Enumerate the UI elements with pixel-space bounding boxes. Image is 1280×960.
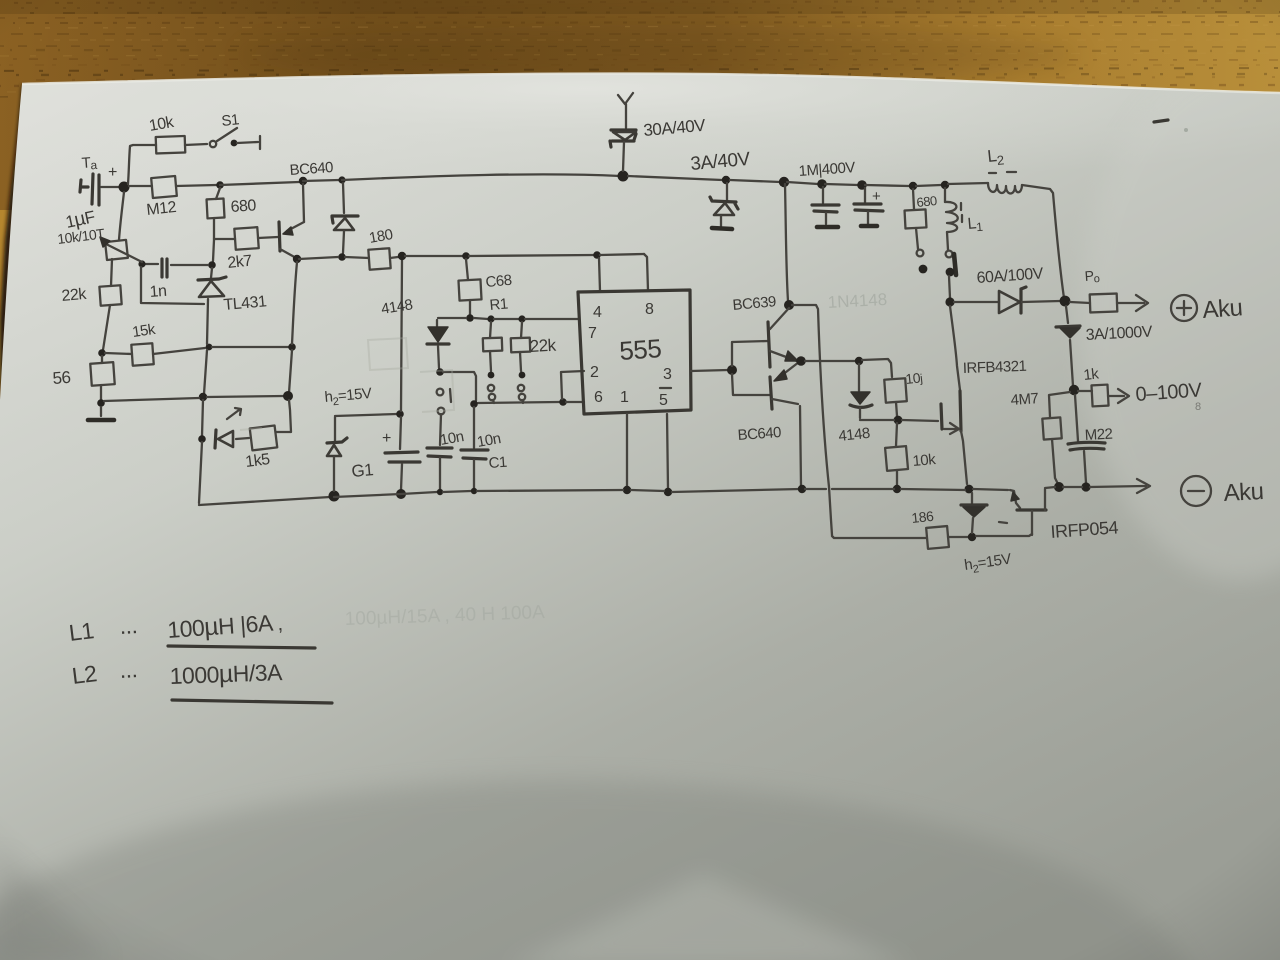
svg-text:22k: 22k xyxy=(61,286,88,305)
wire AI to AJ xyxy=(494,318,519,320)
svg-text:IRFB4321: IRFB4321 xyxy=(963,358,1027,377)
svg-text:4M7: 4M7 xyxy=(1010,390,1039,409)
wire connector to node M xyxy=(949,276,950,298)
node AE G1 zener xyxy=(329,491,340,502)
node O xyxy=(1069,385,1079,395)
svg-text:+: + xyxy=(108,164,117,181)
wire 186 to node AT xyxy=(948,536,968,538)
node Q xyxy=(1054,482,1064,492)
svg-text:4148: 4148 xyxy=(838,425,871,445)
wire AJ to 555 pin7 xyxy=(525,318,578,320)
plus terminal Aku xyxy=(1171,295,1197,321)
wire node N to P0 xyxy=(1070,302,1090,303)
node AB xyxy=(97,399,105,407)
base bracket wires xyxy=(732,341,768,366)
diode 3A/1000V xyxy=(1056,326,1080,327)
transistor Q3 BC640 right xyxy=(770,377,772,409)
svg-text:L1: L1 xyxy=(67,617,95,646)
wire Q3 collector down to rail xyxy=(800,406,801,486)
wire TL431 down to node AA xyxy=(204,350,207,394)
wire pin7 line xyxy=(438,318,488,319)
node AH xyxy=(466,314,474,322)
top rail B to C xyxy=(220,182,299,185)
wire 186 loop left xyxy=(832,536,926,538)
ground C2 xyxy=(817,225,838,230)
transistor Q4 IRFB4321 xyxy=(941,404,942,429)
resistor 22k b xyxy=(521,322,522,338)
svg-text:C68: C68 xyxy=(485,272,513,291)
wire 4M7 down to rail xyxy=(1052,439,1058,484)
node V TL431 cathode xyxy=(208,261,216,269)
svg-text:8: 8 xyxy=(1195,401,1201,413)
svg-text:Aku: Aku xyxy=(1223,478,1264,507)
resistor 10j xyxy=(884,378,907,402)
resistor 56 xyxy=(90,362,114,386)
wire node L to IRFP gate line long vertical xyxy=(792,305,832,535)
node collector-rail xyxy=(798,485,806,493)
node AL xyxy=(559,398,567,406)
svg-text:10j: 10j xyxy=(905,369,923,387)
top rail C to D xyxy=(303,180,339,181)
resistor 186 xyxy=(926,526,949,549)
node P xyxy=(1081,482,1090,491)
wire node O to 4M7 xyxy=(1049,392,1070,417)
resistor 1k5 xyxy=(250,425,277,450)
node T xyxy=(398,252,406,260)
wire node AA to node AC xyxy=(207,396,284,397)
node AR xyxy=(893,485,901,493)
node M xyxy=(945,297,954,306)
svg-text:186: 186 xyxy=(911,508,935,526)
capacitor 10n xyxy=(427,448,452,457)
wire node Y to node Z xyxy=(212,346,288,348)
svg-text:1N4148: 1N4148 xyxy=(827,290,887,312)
input terminal tick xyxy=(80,180,88,192)
node AI xyxy=(487,315,494,322)
svg-text:3: 3 xyxy=(663,366,672,383)
diode 60A/100V xyxy=(999,291,1020,313)
wire X to 56 xyxy=(101,356,103,363)
wire node AT to gate xyxy=(976,534,1032,536)
node AJ xyxy=(518,315,525,322)
svg-text:...: ... xyxy=(119,656,138,683)
wire node AD down to rail corner xyxy=(199,442,202,503)
zener G1 xyxy=(334,417,336,441)
node R pin4 branch xyxy=(593,251,601,259)
node AF xyxy=(396,410,404,418)
node A input junction xyxy=(119,182,130,193)
wire emitter node to 4148 node xyxy=(805,360,855,362)
wire node M down to Q4 drain xyxy=(950,306,960,390)
svg-text:15k: 15k xyxy=(131,321,157,341)
wire node S to 180 xyxy=(345,257,369,258)
ground C3 xyxy=(861,224,877,229)
svg-text:M22: M22 xyxy=(1084,426,1113,444)
wire node AQ down to 10k xyxy=(896,423,897,446)
underline L2 note xyxy=(172,700,332,703)
wire M22 down to rail xyxy=(1084,451,1086,483)
svg-text:10k: 10k xyxy=(912,451,937,470)
top rail node G to H xyxy=(787,182,818,184)
svg-text:56: 56 xyxy=(52,368,71,388)
wire L2 to right corner down xyxy=(1022,185,1064,298)
stray mark top right xyxy=(1154,120,1168,122)
top rail J to K xyxy=(916,185,941,186)
resistor 4M7 xyxy=(1042,417,1061,439)
resistor 10k lower xyxy=(885,446,908,471)
wire G1 top to cap branch xyxy=(335,414,397,416)
svg-text:M12: M12 xyxy=(146,199,178,219)
wire node AK to pin2 riser xyxy=(443,372,476,401)
svg-text:1k5: 1k5 xyxy=(244,451,271,471)
resistor R1 xyxy=(466,259,468,280)
wire 180 to node T xyxy=(390,257,398,258)
node Z xyxy=(288,343,296,351)
wire 10j to node AQ xyxy=(896,402,897,416)
node Q1 collector junction xyxy=(293,255,301,263)
node K xyxy=(941,181,949,189)
arrow 0-100V xyxy=(1108,389,1129,403)
svg-text:680: 680 xyxy=(230,197,257,216)
node D zener branch xyxy=(338,176,345,183)
node J xyxy=(909,182,917,190)
svg-text:0–100V: 0–100V xyxy=(1135,379,1203,406)
diode 4148 left xyxy=(436,320,438,326)
zener 3A/40V to ground xyxy=(726,183,728,200)
svg-text:BC640: BC640 xyxy=(737,424,782,444)
wire 22k to node X xyxy=(103,305,110,350)
wire M12 to node B xyxy=(176,185,216,186)
resistor 680 left lead xyxy=(216,188,220,199)
resistor 22k xyxy=(99,285,121,305)
TL431 U2 xyxy=(211,268,212,278)
svg-text:+: + xyxy=(382,430,391,447)
svg-text:Aku: Aku xyxy=(1202,294,1244,324)
resistor P0 xyxy=(1090,294,1118,313)
wire AL up to pin 2 xyxy=(561,371,584,399)
svg-text:...: ... xyxy=(119,612,138,639)
svg-text:1n: 1n xyxy=(149,283,167,301)
svg-text:R1: R1 xyxy=(489,295,509,314)
wire node M to 60A diode xyxy=(954,301,999,303)
svg-text:1000µH/3A: 1000µH/3A xyxy=(169,658,283,690)
capacitor M22 xyxy=(1068,442,1105,450)
svg-text:S1: S1 xyxy=(221,111,240,130)
node AC xyxy=(283,391,293,401)
resistor 680 right xyxy=(913,189,914,209)
minus terminal Aku xyxy=(1181,476,1211,506)
wire node A up to 10k resistor xyxy=(128,145,156,184)
gate wire to IRFB4321 xyxy=(860,420,938,421)
potentiometer 10k/10T xyxy=(105,240,128,260)
top rail node E to node F xyxy=(628,176,722,180)
bottom rail middle xyxy=(401,492,437,494)
wire node X to 15k xyxy=(105,353,132,354)
switch S1 xyxy=(210,141,216,147)
transistor Q5 IRFP054 xyxy=(1010,490,1020,508)
wire node O down to M22 xyxy=(1075,395,1078,441)
node AO emitter junction xyxy=(796,356,806,366)
svg-text:680: 680 xyxy=(916,193,938,210)
svg-text:1: 1 xyxy=(620,389,629,406)
node AA xyxy=(199,393,207,401)
node AG xyxy=(396,489,406,499)
node W pot wiper junction xyxy=(138,260,145,267)
node C BC640 collector xyxy=(299,177,307,185)
svg-text:5: 5 xyxy=(659,392,668,409)
wire node AA down to node AD xyxy=(202,400,203,436)
diode 4148 right xyxy=(858,364,860,391)
connector dot L1 xyxy=(946,268,955,277)
diode 30A/40V xyxy=(611,128,636,131)
wire pot wiper node to 1n to TL431 xyxy=(145,264,208,265)
top rail I to J xyxy=(865,185,909,186)
wire 10k to rail xyxy=(896,470,898,485)
connector circle 680 xyxy=(917,250,924,257)
bottom rail right segments xyxy=(805,489,1008,490)
node Y xyxy=(206,344,213,351)
mid rail collector to node S xyxy=(299,257,338,259)
node AQ xyxy=(894,416,903,425)
wire rail corner down to pin 8 xyxy=(644,254,648,291)
wire 680 down to TL431 node xyxy=(213,218,214,261)
wire pin2/6 lower xyxy=(478,402,559,403)
wire jumper to 10n cap xyxy=(440,414,441,445)
node AN xyxy=(727,365,737,375)
wire rail to pin 4 xyxy=(599,258,600,291)
node AP xyxy=(855,357,863,365)
svg-text:2k7: 2k7 xyxy=(227,252,254,272)
node L BC639 collector xyxy=(784,300,794,310)
svg-text:L2: L2 xyxy=(70,660,98,689)
node G xyxy=(779,177,789,187)
svg-text:BC640: BC640 xyxy=(289,159,334,179)
bottom rail left xyxy=(199,497,330,505)
capacitor C2 xyxy=(822,187,824,203)
resistor 2k7 xyxy=(234,227,258,250)
node AS source-rail xyxy=(965,485,974,494)
bottom rail to minus arrow xyxy=(1045,479,1150,493)
resistor M12 xyxy=(151,176,177,198)
svg-text:C1: C1 xyxy=(488,454,507,472)
node E 30A/40V junction xyxy=(618,171,629,182)
wire 2k7 to 680 lead xyxy=(214,238,235,240)
node AM xyxy=(470,400,478,408)
svg-text:8: 8 xyxy=(645,301,654,318)
wire pin 1 to bottom rail xyxy=(626,414,628,487)
svg-text:3A/1000V: 3A/1000V xyxy=(1085,324,1153,344)
LED D1 xyxy=(215,430,216,448)
node AK xyxy=(436,368,444,376)
wire node AB to node AA xyxy=(104,398,199,401)
connector circle L1 xyxy=(946,251,953,258)
wire collector node down to node Z xyxy=(292,262,297,344)
wire node N down xyxy=(1066,306,1068,323)
wire 1k5 up to node AC xyxy=(276,400,291,432)
bottom rail AE to AG xyxy=(334,494,401,497)
node U R1 branch xyxy=(462,252,470,260)
wire node A down to pot xyxy=(119,192,124,240)
fuse lead Y 30A xyxy=(618,93,633,128)
node AT xyxy=(968,533,976,541)
capacitor C1 xyxy=(461,450,488,459)
svg-text:7: 7 xyxy=(588,325,597,342)
svg-text:4: 4 xyxy=(593,304,602,321)
wire pin 5 to bottom rail xyxy=(667,414,668,489)
wire node K to L2 xyxy=(948,183,988,184)
wire AL to pin 6 xyxy=(566,401,584,403)
wire 2k7 to Q1 base xyxy=(258,237,278,238)
node S xyxy=(338,253,346,261)
wire 10k to switch xyxy=(185,144,207,145)
svg-text:2: 2 xyxy=(590,364,599,381)
wire pot to 22k xyxy=(111,259,112,286)
inductor L2 xyxy=(988,183,1022,194)
node H xyxy=(817,179,827,189)
resistor 680 left xyxy=(207,199,225,219)
zener gate protection xyxy=(971,493,973,504)
inductor L1 xyxy=(944,188,946,202)
ground main xyxy=(100,407,102,416)
node AD xyxy=(198,435,206,443)
wire to node O xyxy=(1070,340,1073,386)
capacitor Ta 1uF xyxy=(92,174,99,205)
transistor Q1 BC640 left xyxy=(279,222,280,251)
connector bar xyxy=(954,254,956,275)
wire node Z down to node AC xyxy=(289,350,292,393)
node B xyxy=(216,181,224,189)
capacitor 1n xyxy=(162,259,167,277)
wire L1 to connector xyxy=(947,232,948,250)
ghost erased rectangles xyxy=(240,338,454,430)
connector dot 680 xyxy=(919,265,928,274)
arrow output plus xyxy=(1117,295,1148,311)
wire 15k to TL431 branch xyxy=(153,348,205,354)
transistor Q2 BC639 xyxy=(768,322,770,367)
node X xyxy=(98,349,106,357)
capacitor C3 electrolytic xyxy=(864,188,866,203)
node F xyxy=(722,176,730,184)
svg-text:555: 555 xyxy=(618,333,662,366)
svg-text:22k: 22k xyxy=(529,336,557,356)
mid rail node T to node U xyxy=(405,255,462,257)
resistor 15k xyxy=(131,343,153,365)
top rail H to I xyxy=(825,184,858,185)
node I xyxy=(857,180,867,190)
top rail D to E xyxy=(342,174,620,180)
wire node C down to Q1 emitter xyxy=(303,184,304,222)
IC U1 555 xyxy=(578,290,691,414)
wire node AP to 10j xyxy=(862,359,892,377)
stray dot xyxy=(1184,128,1188,132)
zener on 180 branch xyxy=(343,183,344,213)
wire 56 to node AB xyxy=(100,385,102,400)
wire node G down to BC639 collector xyxy=(785,184,788,301)
wire node A to M12 xyxy=(129,185,152,187)
svg-text:1k: 1k xyxy=(1083,365,1101,384)
mid rail node R to pin8 corner xyxy=(600,254,644,255)
wire pin3 to node AN xyxy=(691,370,728,371)
top rail node F to node G xyxy=(730,180,780,182)
wire node T down to G1 cap xyxy=(400,259,402,449)
svg-text:6: 6 xyxy=(594,389,603,406)
jumper circles 10n branch xyxy=(437,389,444,396)
resistor 1k xyxy=(1078,390,1092,392)
underline L1 note xyxy=(168,646,315,648)
node N output plus xyxy=(1060,296,1071,307)
resistor 10k xyxy=(156,136,186,154)
svg-text:G1: G1 xyxy=(351,460,374,481)
wire Ta to node A xyxy=(101,186,119,188)
resistor 22k a xyxy=(490,322,491,338)
wire 1n lower branch xyxy=(141,267,204,304)
mid rail node U to node R xyxy=(469,255,594,256)
wire AM down to C1 xyxy=(473,407,475,448)
resistor 180 xyxy=(368,248,390,269)
ground 3A/40V xyxy=(712,228,732,229)
minus mark xyxy=(999,522,1007,523)
